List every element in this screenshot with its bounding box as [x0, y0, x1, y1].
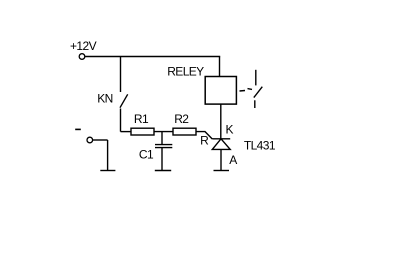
- ground minus branch: [100, 170, 115, 172]
- relay contact arm: [254, 87, 262, 98]
- svg-text:R1: R1: [134, 112, 149, 126]
- resistor R2: [173, 128, 196, 135]
- svg-text:K: K: [225, 123, 233, 137]
- capacitor C1: [155, 132, 172, 170]
- wire junction down to KN: [120, 57, 122, 93]
- wire minus terminal: [93, 139, 108, 141]
- svg-text:A: A: [229, 153, 237, 167]
- wire rail into relay coil: [219, 57, 221, 77]
- switch KN: [120, 94, 128, 107]
- wire minus down: [107, 140, 109, 170]
- IC U1 TL431 cathode bar: [212, 138, 230, 140]
- IC U1 TL431 triangle: [212, 139, 230, 150]
- relay coil RELEY: [205, 77, 236, 105]
- wire to R1: [121, 131, 132, 133]
- resistor R1: [131, 128, 154, 135]
- label minus: [75, 129, 81, 131]
- svg-text:+12V: +12V: [70, 39, 97, 53]
- svg-text:C1: C1: [139, 147, 154, 161]
- relay contact fixed terminal: [255, 70, 257, 86]
- ground C1: [155, 170, 171, 172]
- wire KN bottom: [120, 109, 122, 132]
- svg-text:R2: R2: [174, 112, 189, 126]
- wire R2 to TL431 ref: [196, 132, 212, 139]
- svg-text:TL431: TL431: [244, 139, 276, 153]
- wire TL431 anode: [220, 149, 222, 170]
- svg-text:RELEY: RELEY: [167, 65, 204, 79]
- dashed link coil to contact: [240, 89, 253, 91]
- relay contact moving terminal: [254, 100, 256, 108]
- svg-text:R: R: [200, 133, 209, 147]
- wire relay coil to TL431 K: [220, 104, 222, 139]
- svg-text:KN: KN: [97, 92, 112, 106]
- wire R1 to R2: [154, 131, 173, 133]
- ground TL431: [214, 170, 230, 172]
- terminal minus: [87, 137, 93, 143]
- wire top rail: [85, 56, 220, 58]
- terminal +12V: [79, 54, 85, 60]
